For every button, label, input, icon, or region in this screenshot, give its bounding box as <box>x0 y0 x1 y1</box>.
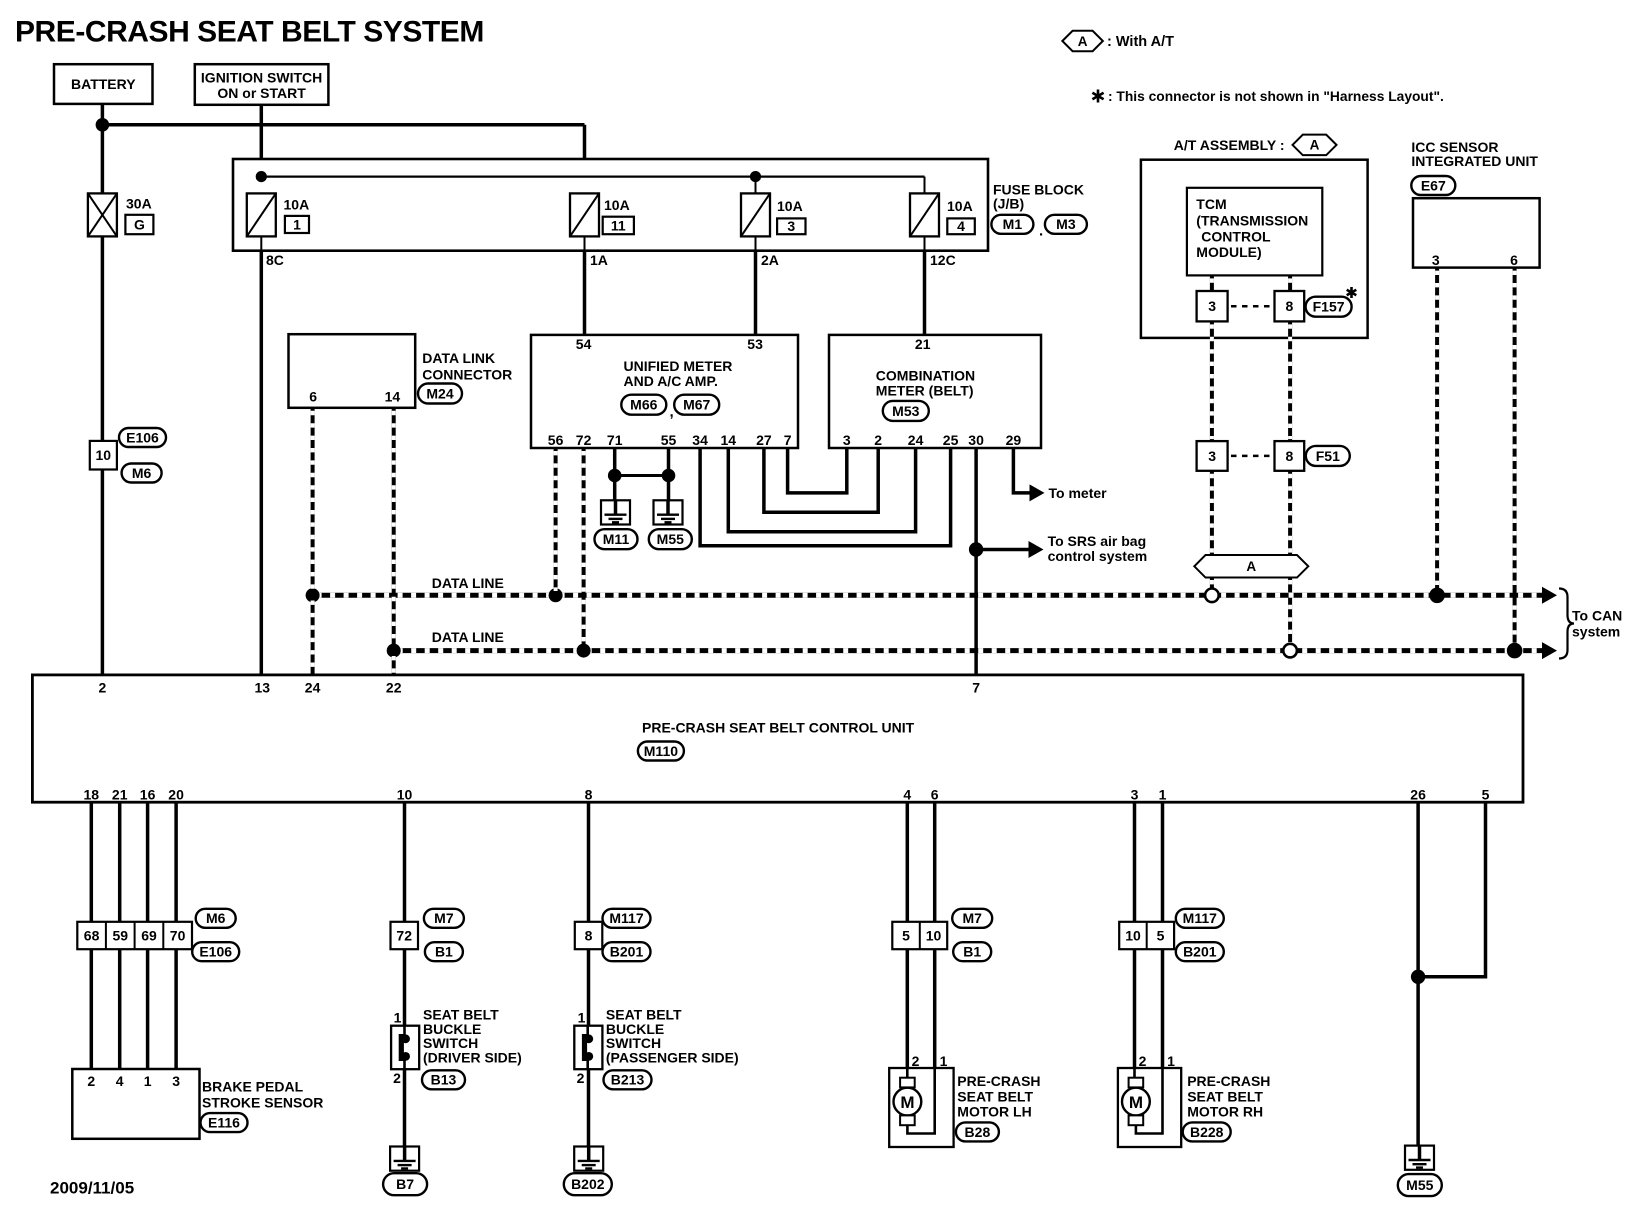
svg-text:1A: 1A <box>590 252 608 268</box>
connector M55 oval bottom <box>1398 1174 1442 1196</box>
svg-text:(PASSENGER SIDE): (PASSENGER SIDE) <box>606 1050 739 1066</box>
svg-text:A: A <box>1246 559 1256 574</box>
svg-text:G: G <box>134 216 145 232</box>
node junction 71 <box>608 469 622 483</box>
svg-text:4: 4 <box>116 1073 124 1089</box>
svg-text:5: 5 <box>1482 786 1490 802</box>
wire motor RH pin2 <box>1133 949 1137 1068</box>
wire control unit pin8 to passenger buckle <box>587 802 591 922</box>
connector M6 oval <box>196 909 236 928</box>
connector F157 oval <box>1306 297 1352 317</box>
svg-text:B1: B1 <box>435 944 453 960</box>
svg-text:TCM: TCM <box>1196 196 1226 212</box>
wire control unit pin26 to ground M55 <box>1416 802 1420 1145</box>
svg-text:8: 8 <box>585 927 593 943</box>
fuse 3 10A <box>741 193 770 236</box>
svg-text:22: 22 <box>386 679 402 695</box>
wire DLC pin6 to CAN-H and control unit pin24 <box>311 408 315 593</box>
node junction pin26 pin5 <box>1411 970 1425 984</box>
svg-text:M66: M66 <box>630 397 657 413</box>
wire pin29 to meter arrow <box>1013 448 1030 493</box>
svg-text:BATTERY: BATTERY <box>71 76 136 92</box>
svg-text:10: 10 <box>1125 927 1141 943</box>
svg-text:2: 2 <box>1139 1053 1147 1069</box>
connector B1 oval LH <box>953 942 991 961</box>
svg-text:B202: B202 <box>571 1176 605 1192</box>
connector M117 oval passenger <box>603 909 651 928</box>
svg-text:10: 10 <box>926 927 942 943</box>
svg-text:34: 34 <box>692 432 708 448</box>
svg-text:PRE-CRASH: PRE-CRASH <box>957 1073 1040 1089</box>
seat belt buckle switch driver side <box>391 1026 419 1070</box>
svg-text:M: M <box>1129 1093 1143 1112</box>
wire driver buckle to ground <box>403 1069 407 1146</box>
svg-text:MOTOR RH: MOTOR RH <box>1187 1104 1263 1120</box>
svg-text:6: 6 <box>309 388 317 404</box>
connector B202 oval <box>564 1173 612 1195</box>
node battery feed junction <box>96 118 110 132</box>
wire motor LH pin1 <box>933 949 937 1068</box>
svg-text:B7: B7 <box>396 1176 414 1192</box>
node junction pin72 CAN-L <box>577 644 591 658</box>
svg-text:MODULE): MODULE) <box>1196 244 1261 260</box>
svg-text:COMBINATION: COMBINATION <box>876 368 975 384</box>
svg-text:21: 21 <box>915 336 931 352</box>
connector M53 oval <box>883 401 929 421</box>
svg-text:26: 26 <box>1410 786 1426 802</box>
svg-text:B1: B1 <box>963 944 981 960</box>
svg-text:PRE-CRASH: PRE-CRASH <box>1187 1073 1270 1089</box>
svg-text:B213: B213 <box>611 1072 645 1088</box>
wire 8C fuse1 to control unit pin13 <box>260 236 262 250</box>
svg-text:10: 10 <box>397 786 413 802</box>
svg-text:13: 13 <box>255 679 271 695</box>
svg-text:E116: E116 <box>208 1115 240 1131</box>
connector B228 oval <box>1183 1122 1231 1141</box>
svg-text:71: 71 <box>607 432 623 448</box>
wire unified meter pin72 to CAN-L <box>582 448 586 648</box>
connector B201 oval RH <box>1176 942 1224 961</box>
svg-text:53: 53 <box>747 336 763 352</box>
wire F51 pin8 down to flag A <box>1288 471 1292 556</box>
svg-text:7: 7 <box>972 679 980 695</box>
svg-text:24: 24 <box>908 432 924 448</box>
svg-text:To SRS air bag: To SRS air bag <box>1048 533 1147 549</box>
svg-text:8: 8 <box>585 786 593 802</box>
svg-text:: This connector is not shown: : This connector is not shown in "Harnes… <box>1108 89 1444 104</box>
A/T assembly box <box>1141 160 1368 338</box>
svg-text:A: A <box>1078 34 1088 49</box>
connector M6 oval battery wire <box>122 464 162 483</box>
svg-text:30A: 30A <box>126 195 152 211</box>
svg-text:3: 3 <box>1208 298 1216 314</box>
svg-text:M110: M110 <box>644 743 678 759</box>
svg-text:To CAN: To CAN <box>1572 607 1622 623</box>
motor M symbol LH <box>906 1068 909 1078</box>
node junction DLC6 CAN-H <box>306 588 320 602</box>
wire control unit pin4 to motor LH <box>906 802 910 922</box>
connector E67 oval <box>1411 176 1455 195</box>
connector F51 oval <box>1306 446 1350 466</box>
svg-text:B228: B228 <box>1190 1124 1224 1140</box>
connector F157 pin 8 box <box>1275 291 1305 321</box>
wire pin55 to ground M55 <box>667 448 671 500</box>
svg-text:10A: 10A <box>777 198 803 214</box>
wire 1A fuse11 to unified meter pin54 <box>584 236 586 250</box>
node junction fuse3 bus <box>750 171 761 182</box>
svg-text:PRE-CRASH SEAT BELT CONTROL UN: PRE-CRASH SEAT BELT CONTROL UNIT <box>642 720 915 736</box>
wire ignition switch to fuse 1 <box>260 105 264 177</box>
connector M110 oval <box>638 742 684 761</box>
wire pin30 to control unit pin7 <box>974 448 978 675</box>
svg-text:(J/B): (J/B) <box>993 195 1024 211</box>
asterisk F157 <box>1350 287 1353 298</box>
svg-text:STROKE SENSOR: STROKE SENSOR <box>202 1094 323 1110</box>
svg-text:2: 2 <box>577 1070 585 1086</box>
svg-text:BRAKE PEDAL: BRAKE PEDAL <box>202 1078 304 1094</box>
svg-text:M117: M117 <box>1183 910 1217 926</box>
connector B7 oval <box>383 1173 427 1195</box>
svg-text:8: 8 <box>1286 298 1294 314</box>
wire passenger buckle to ground <box>587 1069 591 1146</box>
svg-text:To meter: To meter <box>1049 485 1108 501</box>
svg-text:2: 2 <box>99 679 107 695</box>
node junction ICC6 CAN-L <box>1507 643 1523 659</box>
wire control unit pin 18 to brake sensor <box>90 802 94 922</box>
svg-text:21: 21 <box>112 786 128 802</box>
wire flag A to CAN-L <box>1288 577 1292 648</box>
connector E106 oval <box>192 942 239 961</box>
svg-text:.: . <box>1039 222 1043 239</box>
svg-text:5: 5 <box>902 927 910 943</box>
connector B1 oval driver <box>425 942 463 961</box>
svg-text:11: 11 <box>611 217 626 233</box>
svg-text:6: 6 <box>931 786 939 802</box>
svg-text:M24: M24 <box>426 385 453 401</box>
svg-text:AND A/C AMP.: AND A/C AMP. <box>624 373 718 389</box>
TCM box <box>1187 188 1322 276</box>
svg-text:68: 68 <box>84 927 100 943</box>
node junction ICC3 CAN-H <box>1429 588 1445 604</box>
svg-text:59: 59 <box>113 927 129 943</box>
svg-text:25: 25 <box>943 432 959 448</box>
ground passenger buckle <box>574 1147 603 1171</box>
brace To CAN system <box>1559 589 1574 659</box>
pre-crash seat belt control unit box M110 <box>32 675 1523 802</box>
svg-text:20: 20 <box>168 786 184 802</box>
pre-crash seat belt motor RH box <box>1118 1068 1181 1147</box>
wire fuse block internal bus <box>261 176 924 178</box>
connector M7 oval LH <box>952 909 992 928</box>
arrow CAN-H to CAN system <box>1542 587 1557 604</box>
wire DLC pin14 to CAN-L and control unit pin22 <box>392 408 396 648</box>
svg-text:(TRANSMISSION: (TRANSMISSION <box>1196 213 1308 229</box>
svg-text:DATA LINK: DATA LINK <box>422 350 495 366</box>
svg-text:,: , <box>670 403 674 420</box>
svg-text:2: 2 <box>912 1053 920 1069</box>
wire control unit pin3 to motor RH <box>1133 802 1137 922</box>
flag A hexagon at A/T assembly <box>1293 135 1337 156</box>
wire 2A fuse3 to unified meter pin53 <box>755 236 757 250</box>
svg-text:70: 70 <box>170 927 186 943</box>
wire control unit pin 16 to brake sensor <box>146 802 150 922</box>
svg-text:DATA LINE: DATA LINE <box>432 629 504 645</box>
seat belt buckle switch passenger side <box>574 1026 602 1070</box>
pre-crash seat belt motor LH box <box>889 1068 953 1147</box>
connector B13 oval <box>422 1070 465 1089</box>
svg-text:2009/11/05: 2009/11/05 <box>50 1179 134 1198</box>
svg-text:CONNECTOR: CONNECTOR <box>422 366 512 382</box>
svg-text:B201: B201 <box>610 944 644 960</box>
svg-text:24: 24 <box>305 679 321 695</box>
svg-text:2: 2 <box>393 1070 401 1086</box>
svg-text:4: 4 <box>957 218 965 234</box>
battery BATTERY box <box>54 64 153 104</box>
svg-text:B13: B13 <box>431 1072 457 1088</box>
svg-text:INTEGRATED UNIT: INTEGRATED UNIT <box>1411 153 1538 169</box>
svg-text:3: 3 <box>1432 252 1440 268</box>
fuse 1 10A <box>247 193 276 236</box>
svg-text:16: 16 <box>140 786 156 802</box>
svg-text:29: 29 <box>1006 432 1022 448</box>
connector F51 pin 8 box <box>1275 441 1305 471</box>
svg-text:E67: E67 <box>1421 177 1446 193</box>
svg-text:UNIFIED METER: UNIFIED METER <box>624 358 733 374</box>
svg-text:54: 54 <box>576 336 592 352</box>
svg-text:1: 1 <box>1167 1053 1175 1069</box>
wire pin7 to pin3 <box>788 448 847 493</box>
combination meter (BELT) box <box>829 335 1041 448</box>
wire driver buckle 72 to switch <box>403 949 407 1025</box>
svg-text:MOTOR LH: MOTOR LH <box>957 1104 1031 1120</box>
node junction DLC14 CAN-L <box>387 644 401 658</box>
connector M1 oval <box>991 215 1033 234</box>
svg-text:14: 14 <box>385 388 401 404</box>
connector F157 pin 3 box <box>1197 291 1228 321</box>
connector B213 oval <box>604 1070 652 1089</box>
svg-text:3: 3 <box>1208 448 1216 464</box>
svg-text:M3: M3 <box>1056 216 1076 232</box>
svg-text:M53: M53 <box>892 403 919 419</box>
wire control unit pin 21 to brake sensor <box>118 802 122 922</box>
wire control unit pin1 to motor RH <box>1161 802 1165 922</box>
connector M24 oval <box>418 384 462 404</box>
wire pin34 to pin25 <box>700 448 951 546</box>
svg-text:CONTROL: CONTROL <box>1201 228 1271 244</box>
wire control unit pin10 to driver buckle <box>403 802 407 922</box>
wire unified meter pin56 to CAN-H <box>554 448 558 593</box>
wire battery feed horizontal to fuse 11 <box>101 123 585 127</box>
svg-text:(DRIVER SIDE): (DRIVER SIDE) <box>423 1050 522 1066</box>
node junction 55 <box>662 469 676 483</box>
svg-text:30: 30 <box>968 432 984 448</box>
svg-text:2: 2 <box>87 1073 95 1089</box>
svg-text:10A: 10A <box>604 197 630 213</box>
svg-text:F157: F157 <box>1313 299 1345 315</box>
svg-text:SEAT BELT: SEAT BELT <box>957 1089 1033 1105</box>
svg-text:PRE-CRASH SEAT BELT SYSTEM: PRE-CRASH SEAT BELT SYSTEM <box>15 16 484 49</box>
fuse 30A G (fusible link) <box>88 193 117 236</box>
svg-text:1: 1 <box>940 1053 948 1069</box>
dashed connector link F157 <box>1231 305 1271 308</box>
svg-text:3: 3 <box>1131 786 1139 802</box>
svg-text:: With A/T: : With A/T <box>1107 34 1174 50</box>
svg-text:27: 27 <box>756 432 772 448</box>
svg-text:E106: E106 <box>126 429 159 445</box>
connector M117 oval RH <box>1176 909 1224 928</box>
node junction SRS branch <box>969 542 983 556</box>
connector B28 oval <box>956 1122 999 1141</box>
svg-text:ON or START: ON or START <box>217 85 306 101</box>
svg-text:M55: M55 <box>1406 1177 1433 1193</box>
svg-text:1: 1 <box>578 1010 586 1026</box>
connector E106 oval battery wire <box>119 428 166 447</box>
flag A hexagon banner <box>1194 555 1308 578</box>
connector E116 oval <box>201 1113 248 1132</box>
ground driver buckle <box>390 1147 419 1171</box>
connector B201 oval passenger <box>603 942 651 961</box>
wire CAN-L data line <box>394 648 1542 653</box>
svg-text:M11: M11 <box>603 531 630 547</box>
wire 12C fuse4 to combination meter pin21 <box>924 236 926 250</box>
svg-text:3: 3 <box>172 1073 180 1089</box>
fuse block (J/B) outline <box>233 159 988 251</box>
svg-text:A: A <box>1310 138 1320 153</box>
svg-text:10A: 10A <box>947 198 973 214</box>
connector M7 oval driver <box>424 909 464 928</box>
svg-text:E106: E106 <box>199 944 232 960</box>
svg-text:M117: M117 <box>609 910 643 926</box>
motor M symbol RH <box>1133 1068 1136 1078</box>
connector M67 oval <box>674 395 719 415</box>
svg-text:10: 10 <box>96 447 112 463</box>
svg-text:7: 7 <box>784 432 792 448</box>
connector M3 oval <box>1045 215 1087 234</box>
wire battery 30A fuse to control unit pin2 <box>101 236 105 675</box>
svg-text:A/T ASSEMBLY :: A/T ASSEMBLY : <box>1174 137 1285 153</box>
wire pin71 to ground M11 <box>613 448 617 500</box>
connector M66 oval <box>621 395 666 415</box>
legend hexagon A With A/T <box>1062 31 1103 52</box>
wire flag A to CAN-H <box>1210 577 1214 593</box>
svg-text:6: 6 <box>1510 252 1518 268</box>
wire TCM pin8 stub <box>1288 275 1292 291</box>
svg-text:3: 3 <box>787 218 795 234</box>
svg-text:SEAT BELT: SEAT BELT <box>1187 1089 1263 1105</box>
node junction fuse1 bus <box>256 171 267 182</box>
data link connector box M24 <box>289 334 416 408</box>
svg-text:10A: 10A <box>284 196 310 212</box>
svg-text:55: 55 <box>661 432 677 448</box>
connector row 5 10 box LH <box>892 922 947 949</box>
svg-text:2: 2 <box>874 432 882 448</box>
svg-text:5: 5 <box>1157 927 1165 943</box>
svg-text:B28: B28 <box>965 1124 991 1140</box>
ground M55 <box>654 500 683 524</box>
wire pin27 to pin2 <box>764 448 878 512</box>
node open circle TCM8 CAN-L <box>1283 644 1297 658</box>
svg-text:69: 69 <box>141 927 157 943</box>
svg-text:B201: B201 <box>1183 944 1217 960</box>
wire passenger buckle to switch <box>587 949 591 1025</box>
fuse 4 10A <box>910 193 939 236</box>
wire ICC pin3 to CAN-H <box>1435 268 1439 596</box>
arrow CAN-L to CAN system <box>1542 642 1557 659</box>
svg-text:M7: M7 <box>434 910 454 926</box>
svg-text:1: 1 <box>1159 786 1167 802</box>
svg-text:M7: M7 <box>962 910 982 926</box>
wire to SRS air bag arrow <box>976 548 1029 552</box>
wire TCM pin3 to F51 pin3 <box>1210 321 1214 441</box>
connector F51 pin 3 box <box>1197 441 1228 471</box>
svg-text:IGNITION SWITCH: IGNITION SWITCH <box>201 69 322 85</box>
svg-text:3: 3 <box>843 432 851 448</box>
connector M11 oval <box>595 529 638 549</box>
svg-text:M1: M1 <box>1003 216 1023 232</box>
svg-text:72: 72 <box>576 432 592 448</box>
svg-text:72: 72 <box>396 927 412 943</box>
svg-text:1: 1 <box>394 1010 402 1026</box>
svg-text:18: 18 <box>84 786 100 802</box>
connector row 10 5 box RH <box>1119 922 1174 949</box>
connector 10 box on battery wire <box>90 441 117 470</box>
wire pin14 to pin24 <box>728 448 915 532</box>
svg-text:M6: M6 <box>206 910 226 926</box>
connector M55 oval <box>649 529 692 549</box>
fuse 11 10A <box>570 193 599 236</box>
wire control unit pin6 to motor LH <box>933 802 937 922</box>
svg-text:1: 1 <box>293 216 301 232</box>
svg-text:METER (BELT): METER (BELT) <box>876 383 974 399</box>
connector 8 box passenger <box>575 922 603 949</box>
node junction pin56 CAN-H <box>549 588 563 602</box>
svg-text:M67: M67 <box>683 397 710 413</box>
ignition switch box <box>195 64 329 105</box>
svg-text:1: 1 <box>144 1073 152 1089</box>
connector 72 box driver <box>391 922 419 949</box>
svg-text:DATA LINE: DATA LINE <box>432 575 504 591</box>
ground M55 bottom <box>1405 1146 1434 1170</box>
svg-text:control system: control system <box>1048 548 1148 564</box>
wire control unit pin5 joins pin26 <box>1418 802 1485 977</box>
svg-text:F51: F51 <box>1316 448 1340 464</box>
svg-text:12C: 12C <box>930 252 956 268</box>
wire motor LH pin2 <box>906 949 910 1068</box>
svg-text:M: M <box>900 1093 914 1112</box>
svg-text:8C: 8C <box>266 252 284 268</box>
ground M11 <box>601 500 630 524</box>
node open circle TCM3 CAN-H <box>1205 589 1219 603</box>
wire battery to fuse 30A <box>101 104 105 193</box>
dashed connector link F51 <box>1231 455 1271 458</box>
wire F51 pin3 down to flag A <box>1210 471 1214 556</box>
svg-text:M6: M6 <box>132 465 152 481</box>
unified meter and A/C amp box <box>531 335 798 448</box>
svg-text:M55: M55 <box>657 531 684 547</box>
svg-text:8: 8 <box>1286 448 1294 464</box>
brake pedal stroke sensor box <box>72 1069 199 1139</box>
wire ground link 71-55 <box>615 474 669 477</box>
legend note asterisk <box>1097 90 1100 103</box>
wire control unit pin 20 to brake sensor <box>174 802 178 922</box>
wire TCM pin8 to F51 pin8 <box>1288 321 1292 441</box>
svg-text:system: system <box>1572 623 1620 639</box>
ICC sensor integrated unit box <box>1413 198 1540 267</box>
svg-text:14: 14 <box>721 432 737 448</box>
wire TCM pin3 stub <box>1210 275 1214 291</box>
connector row 68 59 69 70 box <box>77 922 192 949</box>
svg-text:4: 4 <box>903 786 911 802</box>
